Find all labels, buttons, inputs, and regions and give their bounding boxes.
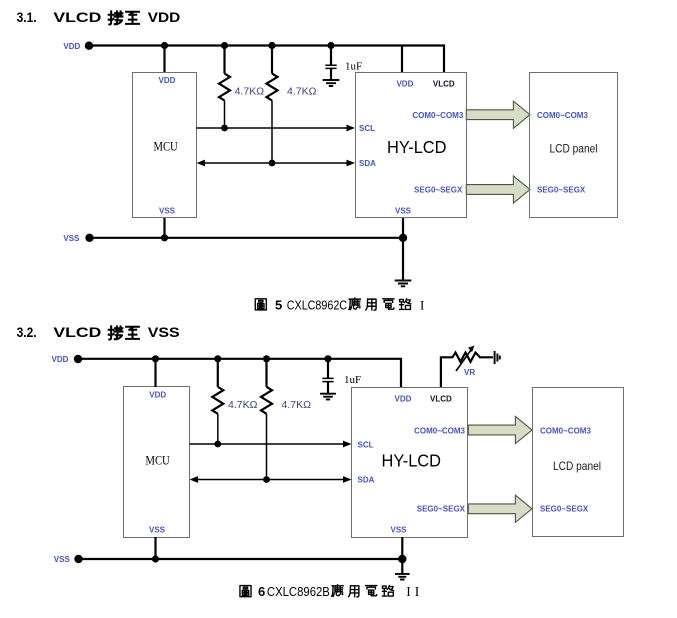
svg-text:MCU: MCU — [154, 140, 179, 154]
svg-text:4.7KΩ: 4.7KΩ — [282, 399, 312, 411]
svg-text:VDD: VDD — [148, 10, 180, 25]
svg-text:VSS: VSS — [390, 526, 407, 535]
svg-text:HY-LCD: HY-LCD — [382, 451, 441, 471]
svg-text:VSS: VSS — [159, 207, 176, 216]
svg-text:SEG0~SEGX: SEG0~SEGX — [414, 186, 463, 195]
svg-text:VLCD: VLCD — [433, 80, 455, 89]
svg-text:3.1.: 3.1. — [17, 9, 37, 25]
svg-text:COM0~COM3: COM0~COM3 — [537, 111, 588, 120]
svg-text:VLCD: VLCD — [53, 10, 101, 25]
svg-text:CXLC8962B: CXLC8962B — [267, 584, 330, 599]
svg-text:1uF: 1uF — [345, 60, 362, 72]
svg-text:CXLC8962C: CXLC8962C — [287, 298, 348, 313]
svg-text:VR: VR — [464, 368, 475, 377]
svg-text:SDA: SDA — [358, 476, 375, 485]
svg-text:VDD: VDD — [159, 76, 176, 85]
svg-text:VSS: VSS — [63, 234, 80, 243]
svg-text:VDD: VDD — [395, 395, 412, 404]
svg-text:COM0~COM3: COM0~COM3 — [540, 427, 591, 436]
svg-text:VDD: VDD — [149, 391, 166, 400]
svg-text:VDD: VDD — [396, 80, 413, 89]
svg-text:VLCD: VLCD — [53, 325, 101, 340]
svg-text:COM0~COM3: COM0~COM3 — [414, 427, 465, 436]
svg-text:I: I — [420, 298, 424, 313]
svg-text:VLCD: VLCD — [430, 395, 452, 404]
svg-text:SEG0~SEGX: SEG0~SEGX — [540, 505, 589, 514]
svg-text:3.2.: 3.2. — [17, 324, 37, 340]
svg-text:VDD: VDD — [52, 355, 69, 364]
svg-text:VSS: VSS — [149, 526, 166, 535]
svg-text:4.7KΩ: 4.7KΩ — [228, 399, 258, 411]
svg-text:SEG0~SEGX: SEG0~SEGX — [417, 505, 466, 514]
svg-text:SCL: SCL — [359, 124, 375, 133]
svg-text:VDD: VDD — [63, 42, 80, 51]
svg-text:VSS: VSS — [395, 207, 412, 216]
svg-text:1uF: 1uF — [344, 374, 361, 386]
svg-text:5: 5 — [275, 298, 282, 313]
svg-text:HY-LCD: HY-LCD — [387, 138, 446, 158]
svg-text:VSS: VSS — [148, 325, 180, 341]
svg-text:4.7KΩ: 4.7KΩ — [235, 85, 265, 97]
svg-text:LCD panel: LCD panel — [553, 460, 601, 473]
svg-text:SCL: SCL — [358, 441, 374, 450]
svg-text:LCD panel: LCD panel — [550, 143, 598, 156]
svg-text:SEG0~SEGX: SEG0~SEGX — [537, 186, 586, 195]
svg-text:6: 6 — [258, 584, 265, 599]
svg-text:II: II — [406, 584, 423, 599]
svg-text:COM0~COM3: COM0~COM3 — [412, 111, 463, 120]
svg-text:SDA: SDA — [359, 159, 376, 168]
svg-text:MCU: MCU — [146, 454, 171, 468]
svg-text:4.7KΩ: 4.7KΩ — [287, 85, 317, 97]
svg-text:VSS: VSS — [54, 555, 71, 564]
